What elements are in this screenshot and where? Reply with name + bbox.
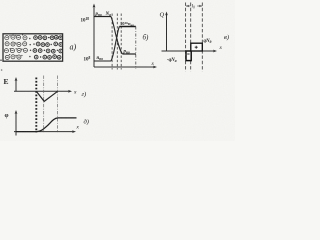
crystal box frame (panel a) [3,34,63,61]
graph g: field V-shaped curve [36,91,57,101]
graph d: y-axis [15,112,17,136]
graph b: dashed depletion boundary right [120,14,122,70]
graph b: dashed junction centre [116,14,118,70]
graph b: x-axis [94,66,155,68]
graph b: dashed depletion boundary left [111,14,113,70]
n-region donor ions (circled plus) [33,35,63,59]
graph b: hole concentration curve (descending) [111,17,123,55]
graph b: electron concentration curve (ascending) [111,27,119,62]
minus signs in acceptor ions [5,37,26,57]
graph g: x-axis [14,90,70,92]
dash-dot junction line (both graphs) [43,76,45,133]
graph v: plus sign inside [195,46,198,49]
graph b: p_po level line [94,16,111,18]
graph v: l0 left arrow [186,5,191,7]
graph v: positive charge rectangle qNd [191,43,203,51]
stray scan mark at left edge [0,60,2,61]
graph v: dashed junction centre [190,3,192,72]
graph b: p_no level line [123,53,137,55]
graph v: minus sign inside [187,53,189,55]
junction gap dots [29,38,31,58]
graph b: n_no level line [119,26,135,28]
graph d: potential curve [16,118,77,132]
graph v: Q-axis [166,13,168,51]
graph v: dashed boundary left [185,3,187,72]
electrons (small dots) in n-region [33,37,58,58]
holes (small dots) in p-region [9,34,23,56]
graph g: y-axis [15,79,17,92]
plus signs in donor ions [34,36,62,58]
graph b: n_po level line [94,60,111,62]
graph b: right edge vertical (dash-dot) [135,27,137,70]
graph v: l0 right arrow [197,5,202,7]
scan noise overlay [0,0,235,141]
dash-dot right depletion edge (both graphs) [57,76,59,133]
graph d: x-axis [14,131,74,133]
thick dotted boundary line (left depletion edge, both graphs) [35,78,37,133]
stray scan speck [1,69,3,71]
graph v: negative charge rectangle -qNa [186,51,191,61]
graph v: x-axis [162,50,216,52]
graph v: dashed boundary right [201,3,203,72]
p-region acceptor ions (circled minus) [4,35,27,59]
graph b: y-axis [93,5,95,67]
